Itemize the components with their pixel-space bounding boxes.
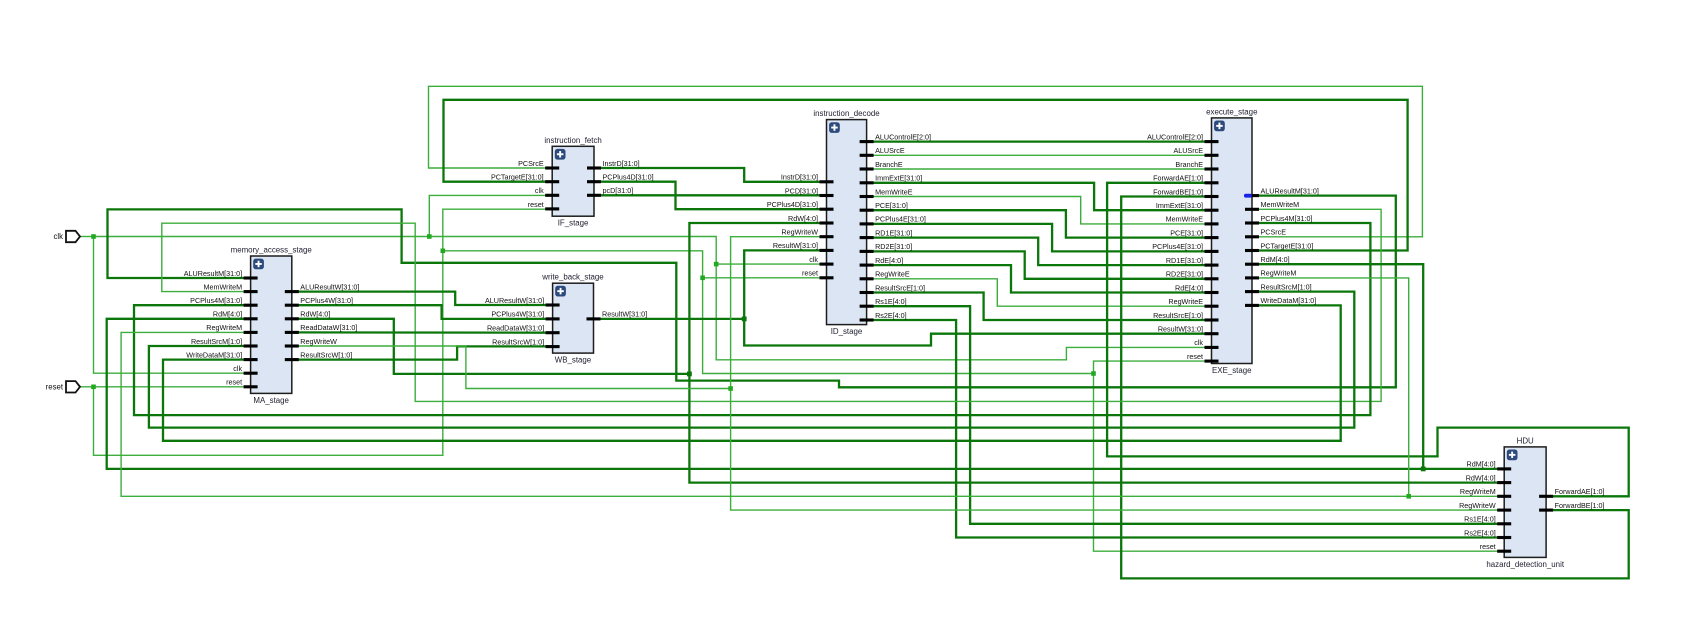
svg-text:MemWriteE: MemWriteE: [875, 187, 913, 196]
wire clk: drop to MA_stage clk: [94, 237, 251, 374]
svg-text:ALUResultW[31:0]: ALUResultW[31:0]: [300, 282, 359, 291]
wire RegWriteE: ID_stage to EXE_stage: [867, 279, 1212, 306]
wire Rs2E: ID_stage to HDU: [867, 320, 1505, 538]
svg-text:hazard_detection_unit: hazard_detection_unit: [1486, 560, 1564, 569]
wire MemWriteE: ID_stage to EXE_stage: [867, 197, 1212, 224]
svg-text:InstrD[31:0]: InstrD[31:0]: [603, 159, 640, 168]
svg-text:memory_access_stage: memory_access_stage: [231, 246, 313, 255]
block memory_access_stage MA_stage: [184, 246, 360, 405]
svg-text:PCPlus4D[31:0]: PCPlus4D[31:0]: [767, 200, 818, 209]
junction clk at ID branch: [714, 262, 719, 267]
wire clk: trunk right: [94, 237, 717, 265]
wire WriteDataM: EXE_stage to MA_stage: [163, 305, 1341, 440]
wire reset: down to HDU reset: [1094, 374, 1505, 552]
svg-text:clk: clk: [233, 364, 242, 373]
svg-text:reset: reset: [226, 378, 242, 387]
svg-text:RegWriteE: RegWriteE: [1168, 297, 1203, 306]
svg-text:ALUResultW[31:0]: ALUResultW[31:0]: [485, 296, 544, 305]
svg-text:RD2E[31:0]: RD2E[31:0]: [1166, 270, 1203, 279]
wire PCSrcE: EXE_stage to IF_stage: [429, 86, 1423, 237]
wire RdM: branch to HDU: [1423, 468, 1504, 470]
svg-text:execute_stage: execute_stage: [1206, 107, 1258, 116]
junction ResultW split: [742, 317, 747, 322]
svg-text:ReadDataW[31:0]: ReadDataW[31:0]: [487, 324, 544, 333]
svg-text:PCTargetE[31:0]: PCTargetE[31:0]: [1261, 241, 1314, 250]
svg-text:Rs2E[4:0]: Rs2E[4:0]: [875, 311, 907, 320]
svg-text:PCE[31:0]: PCE[31:0]: [875, 201, 908, 210]
block instruction_decode ID_stage: [767, 109, 931, 336]
svg-text:reset: reset: [528, 200, 544, 209]
svg-text:PCTargetE[31:0]: PCTargetE[31:0]: [491, 173, 544, 182]
svg-text:RdW[4:0]: RdW[4:0]: [788, 214, 818, 223]
svg-text:ALUControlE[2:0]: ALUControlE[2:0]: [875, 132, 931, 141]
svg-text:WriteDataM[31:0]: WriteDataM[31:0]: [1261, 296, 1317, 305]
svg-text:PCSrcE: PCSrcE: [1261, 228, 1287, 237]
wire PCPlus4D: IF_stage to ID_stage: [594, 182, 827, 210]
svg-text:ForwardBE[1:0]: ForwardBE[1:0]: [1153, 187, 1203, 196]
svg-text:PCPlus4E[31:0]: PCPlus4E[31:0]: [875, 215, 926, 224]
wire ResultSrcE: ID_stage to EXE_stage: [867, 293, 1212, 321]
svg-text:write_back_stage: write_back_stage: [541, 273, 604, 282]
block instruction_fetch IF_stage: [491, 136, 654, 228]
svg-text:clk: clk: [809, 255, 818, 264]
wire ReadDataW: MA_stage to WB_stage: [292, 331, 553, 334]
wire RegWriteW: down to HDU: [731, 389, 1505, 511]
svg-text:ReadDataW[31:0]: ReadDataW[31:0]: [300, 323, 357, 332]
svg-text:RegWriteW: RegWriteW: [1459, 501, 1496, 510]
svg-text:ResultSrcW[1:0]: ResultSrcW[1:0]: [492, 337, 544, 346]
wire ResultW: up to ID_stage: [744, 250, 826, 319]
wire reset: up to EXE_stage reset: [1094, 361, 1212, 373]
wire pcD: IF_stage to ID_stage PCD: [594, 194, 827, 196]
svg-text:WriteDataM[31:0]: WriteDataM[31:0]: [186, 350, 242, 359]
wire reset: drop and run right: [94, 209, 553, 455]
wire ALUControlE: ID_stage to EXE_stage: [867, 140, 1212, 142]
wire PCE: ID_stage to EXE_stage: [867, 210, 1212, 237]
svg-text:PCE[31:0]: PCE[31:0]: [1170, 228, 1203, 237]
svg-text:ALUSrcE: ALUSrcE: [1173, 146, 1203, 155]
junction RegWriteM at HDU: [1406, 494, 1411, 499]
svg-text:RD1E[31:0]: RD1E[31:0]: [1166, 256, 1203, 265]
wire RegWriteM: branch to HDU: [1409, 495, 1505, 497]
wire RdW: MA_stage out and down: [292, 319, 690, 374]
svg-text:RegWriteW: RegWriteW: [781, 228, 818, 237]
svg-text:RdE[4:0]: RdE[4:0]: [1175, 283, 1203, 292]
svg-text:PCPlus4W[31:0]: PCPlus4W[31:0]: [491, 310, 544, 319]
wire MemWriteM: EXE_stage to MA_stage: [162, 209, 1381, 401]
svg-text:RegWriteW: RegWriteW: [300, 337, 337, 346]
wire RdM: EXE_stage trunk: [107, 264, 1424, 469]
svg-text:ResultW[31:0]: ResultW[31:0]: [773, 241, 818, 250]
junction clk at IF branch: [427, 234, 432, 239]
svg-text:PCPlus4D[31:0]: PCPlus4D[31:0]: [603, 173, 654, 182]
svg-text:MemWriteM: MemWriteM: [1261, 200, 1300, 209]
wire InstrD: IF_stage to ID_stage: [594, 168, 827, 182]
input port clk: [53, 231, 80, 242]
wire PCPlus4M: EXE_stage to MA_stage: [134, 223, 1370, 415]
svg-text:ForwardAE[1:0]: ForwardAE[1:0]: [1153, 174, 1203, 183]
svg-text:ALUSrcE: ALUSrcE: [875, 146, 905, 155]
wire reset: port to MA_stage reset: [80, 386, 251, 388]
svg-text:BranchE: BranchE: [875, 160, 903, 169]
svg-text:PCPlus4E[31:0]: PCPlus4E[31:0]: [1152, 242, 1203, 251]
svg-text:RdM[4:0]: RdM[4:0]: [213, 310, 242, 319]
svg-text:ResultSrcM[1:0]: ResultSrcM[1:0]: [1261, 282, 1312, 291]
junction reset at IF riser: [441, 249, 446, 254]
wire ResultSrcM: EXE_stage to MA_stage: [149, 292, 1354, 428]
svg-text:clk: clk: [53, 232, 63, 241]
block write_back_stage WB_stage: [485, 273, 647, 365]
junction reset at EXE riser: [1091, 371, 1096, 376]
wire clk: into ID_stage clk and down: [716, 264, 1211, 360]
svg-text:instruction_decode: instruction_decode: [813, 109, 880, 118]
svg-text:HDU: HDU: [1517, 436, 1534, 445]
wire reset: into ID_stage reset: [703, 277, 827, 279]
junction RdM at HDU: [1421, 467, 1426, 472]
svg-text:PCPlus4W[31:0]: PCPlus4W[31:0]: [300, 296, 353, 305]
pin highlight ALUResultM: [1244, 194, 1252, 198]
svg-text:ResultW[31:0]: ResultW[31:0]: [602, 310, 647, 319]
svg-text:PCD[31:0]: PCD[31:0]: [785, 186, 818, 195]
svg-text:RdE[4:0]: RdE[4:0]: [875, 256, 903, 265]
svg-text:Rs1E[4:0]: Rs1E[4:0]: [1464, 515, 1496, 524]
wire ResultW: WB_stage out: [594, 318, 745, 320]
svg-text:ResultSrcE[1:0]: ResultSrcE[1:0]: [875, 283, 925, 292]
svg-text:MemWriteE: MemWriteE: [1166, 215, 1204, 224]
wire Rs1E: ID_stage to HDU: [867, 306, 1505, 524]
wire ImmExtE: ID_stage to EXE_stage: [867, 183, 1212, 210]
svg-text:pcD[31:0]: pcD[31:0]: [603, 186, 634, 195]
wire PCPlus4E: ID_stage to EXE_stage: [867, 224, 1212, 252]
wire clk: port to trunk: [80, 236, 94, 238]
svg-text:ImmExtE[31:0]: ImmExtE[31:0]: [875, 174, 922, 183]
svg-text:RegWriteM: RegWriteM: [206, 323, 242, 332]
svg-text:BranchE: BranchE: [1175, 160, 1203, 169]
svg-text:RegWriteM: RegWriteM: [1460, 487, 1496, 496]
wire ALUResultM: EXE_stage to MA_stage: [108, 196, 1396, 388]
svg-text:RdM[4:0]: RdM[4:0]: [1467, 460, 1496, 469]
svg-text:ForwardBE[1:0]: ForwardBE[1:0]: [1555, 501, 1605, 510]
wire PCTargetE: EXE_stage to IF_stage: [444, 100, 1408, 251]
junction RdW split: [687, 372, 692, 377]
svg-text:RegWriteE: RegWriteE: [875, 270, 910, 279]
svg-text:WB_stage: WB_stage: [555, 356, 592, 365]
block HDU hazard_detection_unit: [1459, 436, 1604, 569]
svg-text:PCPlus4M[31:0]: PCPlus4M[31:0]: [1261, 214, 1313, 223]
wire RegWriteW: MA_stage out and down: [292, 346, 731, 389]
svg-text:instruction_fetch: instruction_fetch: [544, 136, 601, 145]
wire ForwardBE: HDU to EXE_stage: [1121, 197, 1629, 579]
wire RdW: down to HDU: [689, 374, 1504, 483]
svg-text:ResultSrcW[1:0]: ResultSrcW[1:0]: [300, 350, 352, 359]
wire BranchE: ID_stage to EXE_stage: [867, 168, 1212, 170]
block execute_stage EXE_stage: [1147, 107, 1319, 375]
svg-text:clk: clk: [535, 186, 544, 195]
svg-text:ResultW[31:0]: ResultW[31:0]: [1158, 325, 1203, 334]
svg-text:PCSrcE: PCSrcE: [518, 159, 544, 168]
wire clk: branch up to IF_stage clk: [429, 195, 552, 236]
svg-text:RD2E[31:0]: RD2E[31:0]: [875, 242, 912, 251]
wire ALUResultW: MA_stage to WB_stage: [292, 292, 553, 305]
svg-text:InstrD[31:0]: InstrD[31:0]: [781, 173, 818, 182]
svg-text:ForwardAE[1:0]: ForwardAE[1:0]: [1555, 487, 1605, 496]
junction reset at port: [91, 385, 96, 390]
svg-text:RdW[4:0]: RdW[4:0]: [1466, 473, 1496, 482]
wire ResultSrcW: MA_stage to WB_stage: [292, 346, 553, 359]
svg-text:RdW[4:0]: RdW[4:0]: [300, 310, 330, 319]
wire PCPlus4W: MA_stage to WB_stage: [292, 305, 553, 319]
svg-text:reset: reset: [1480, 542, 1496, 551]
wire RD2E: ID_stage to EXE_stage: [867, 251, 1212, 278]
svg-text:ALUResultM[31:0]: ALUResultM[31:0]: [184, 269, 242, 278]
wire RdW: up to ID_stage: [689, 223, 826, 374]
svg-text:MA_stage: MA_stage: [253, 396, 289, 405]
wire ResultW: down and right to EXE_stage: [744, 319, 1211, 346]
svg-text:PCPlus4M[31:0]: PCPlus4M[31:0]: [190, 296, 242, 305]
svg-text:RegWriteM: RegWriteM: [1261, 269, 1297, 278]
wire ALUSrcE: ID_stage to EXE_stage: [867, 154, 1212, 156]
svg-text:MemWriteM: MemWriteM: [203, 282, 242, 291]
svg-text:RD1E[31:0]: RD1E[31:0]: [875, 228, 912, 237]
svg-text:ALUControlE[2:0]: ALUControlE[2:0]: [1147, 132, 1203, 141]
svg-text:ResultSrcE[1:0]: ResultSrcE[1:0]: [1153, 311, 1203, 320]
svg-text:Rs2E[4:0]: Rs2E[4:0]: [1464, 528, 1496, 537]
svg-text:reset: reset: [46, 382, 64, 391]
wire RD1E: ID_stage to EXE_stage: [867, 238, 1212, 266]
input port reset: [46, 381, 80, 392]
svg-text:reset: reset: [802, 269, 818, 278]
svg-text:clk: clk: [1194, 338, 1203, 347]
junction reset at ID: [700, 276, 705, 281]
svg-text:Rs1E[4:0]: Rs1E[4:0]: [875, 297, 907, 306]
wire RdE: ID_stage to EXE_stage: [867, 265, 1212, 292]
svg-text:RdM[4:0]: RdM[4:0]: [1261, 255, 1290, 264]
svg-text:reset: reset: [1187, 352, 1203, 361]
junction RegWriteW split: [728, 386, 733, 391]
svg-text:ALUResultM[31:0]: ALUResultM[31:0]: [1261, 186, 1319, 195]
svg-text:IF_stage: IF_stage: [558, 219, 589, 228]
svg-text:ResultSrcM[1:0]: ResultSrcM[1:0]: [191, 337, 242, 346]
junction clk at port trunk: [91, 234, 96, 239]
wire reset: branch right to ID column: [443, 251, 1094, 374]
svg-text:ImmExtE[31:0]: ImmExtE[31:0]: [1156, 201, 1203, 210]
wire RegWriteW: up to ID_stage: [731, 237, 827, 389]
wire RegWriteM: EXE_stage trunk: [121, 278, 1409, 496]
svg-text:ID_stage: ID_stage: [831, 327, 863, 336]
svg-text:EXE_stage: EXE_stage: [1212, 366, 1252, 375]
wire ForwardAE: HDU to EXE_stage: [1107, 183, 1629, 497]
